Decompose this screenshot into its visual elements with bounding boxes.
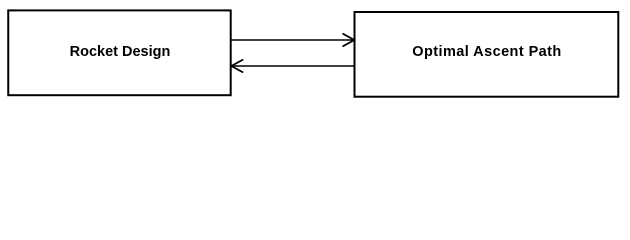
arrowhead right <box>343 34 355 47</box>
svg-text:Optimal Ascent Path: Optimal Ascent Path <box>412 44 561 60</box>
svg-text:Rocket Design: Rocket Design <box>70 44 171 60</box>
wire arrow right shaft <box>231 39 354 41</box>
box Rocket Design <box>8 10 230 95</box>
arrowhead left <box>231 60 243 73</box>
wire arrow left shaft <box>232 65 355 67</box>
box Optimal Ascent Path <box>355 12 619 97</box>
